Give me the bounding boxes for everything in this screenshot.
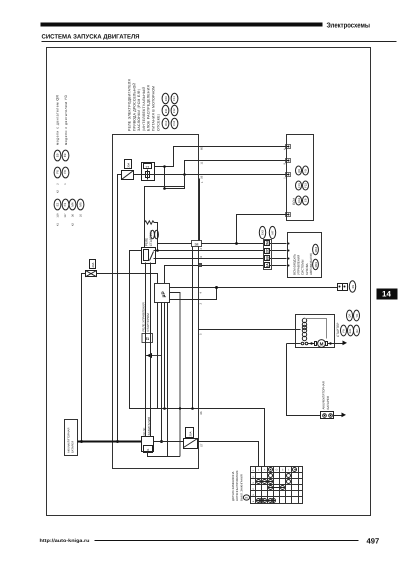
svg-text:40А: 40А: [91, 262, 95, 267]
svg-text:Е2: Е2: [56, 202, 60, 206]
svg-text:М18: М18: [314, 246, 318, 252]
svg-text:СТАРТЕРА: СТАРТЕРА: [149, 229, 153, 246]
svg-text:Е16: Е16: [298, 197, 301, 202]
svg-text:ST: ST: [201, 443, 204, 447]
svg-text:ВЫКЛ. ЗАЖИГАНИЯ: ВЫКЛ. ЗАЖИГАНИЯ: [239, 474, 243, 501]
svg-text:М4: М4: [71, 202, 75, 206]
svg-text:Е9: Е9: [351, 285, 355, 289]
svg-text:F15: F15: [298, 183, 301, 188]
svg-text:ПИТАНИЯ В МОТОРНОМ: ПИТАНИЯ В МОТОРНОМ: [152, 86, 156, 131]
svg-text:117: 117: [64, 213, 67, 218]
svg-text:21: 21: [146, 448, 150, 452]
svg-text:Е43: Е43: [261, 230, 265, 235]
svg-text:Е11: Е11: [164, 108, 168, 113]
svg-text:M: M: [320, 342, 324, 347]
svg-text:ПРИВОДА ДРОССЕЛЬНОЙ: ПРИВОДА ДРОССЕЛЬНОЙ: [131, 82, 136, 131]
svg-text:СТАРТЕР: СТАРТЕР: [336, 323, 340, 337]
svg-text:30А: 30А: [127, 163, 131, 168]
svg-text:СИСТЕМА ЗАПУСКА ДВИГАТЕЛЯ: СИСТЕМА ЗАПУСКА ДВИГАТЕЛЯ: [42, 34, 141, 41]
svg-text:М7: М7: [270, 230, 274, 234]
svg-text:3А: 3А: [266, 263, 270, 268]
svg-text:Электросхемы: Электросхемы: [327, 21, 371, 30]
svg-text:БАТАРЕЯ: БАТАРЕЯ: [326, 396, 330, 410]
svg-text:Е12: Е12: [164, 120, 168, 125]
svg-text:F9: F9: [343, 329, 346, 333]
svg-text:YD: YD: [305, 169, 308, 173]
svg-text:2С: 2С: [266, 248, 270, 253]
svg-text:М6: М6: [79, 202, 83, 206]
svg-text:2М: 2М: [266, 241, 270, 246]
svg-text:модели с двигателем YD: модели с двигателем YD: [64, 94, 68, 145]
svg-text:F13: F13: [172, 120, 176, 125]
svg-text:F8: F8: [56, 170, 60, 174]
svg-text:QR: QR: [298, 169, 301, 173]
svg-text:60: 60: [201, 147, 204, 150]
svg-text:F8: F8: [63, 170, 67, 174]
svg-text:F3: F3: [63, 203, 67, 207]
svg-text:YD: YD: [356, 314, 359, 318]
svg-text:56: 56: [201, 175, 204, 178]
svg-text:F11: F11: [172, 96, 176, 101]
svg-text:ECM: ECM: [292, 198, 296, 205]
svg-text:М19: М19: [314, 262, 318, 268]
svg-text:8В: 8В: [266, 256, 270, 261]
svg-text:Е10: Е10: [164, 96, 168, 101]
svg-text:Е9: Е9: [305, 198, 308, 202]
svg-text:58: 58: [195, 242, 199, 246]
svg-text:http://auto-kniga.ru: http://auto-kniga.ru: [40, 538, 90, 543]
svg-text:21: 21: [146, 166, 150, 170]
svg-text:БАТАРЕЯ: БАТАРЕЯ: [72, 441, 75, 453]
svg-text:В2: В2: [356, 329, 359, 333]
svg-text:РЕЛЕ УПРАВЛЕНИЯ: РЕЛЕ УПРАВЛЕНИЯ: [142, 302, 146, 331]
svg-text:Е9: Е9: [56, 153, 60, 157]
svg-text:30А: 30А: [189, 431, 193, 436]
svg-text:86: 86: [200, 411, 203, 414]
svg-text:СТАРТЕРОМ: СТАРТЕРОМ: [146, 313, 150, 332]
svg-text:F23: F23: [305, 183, 308, 188]
svg-text:ОТСЕКЕ): ОТСЕКЕ): [156, 114, 160, 131]
svg-text:ЗАСЛОНКИ (РСМ Е/R): ЗАСЛОНКИ (РСМ Е/R): [137, 89, 141, 131]
svg-text:µР: µР: [161, 291, 167, 298]
svg-text:F12: F12: [172, 108, 176, 113]
svg-text:РЕЛЕ ЭЛЕКТРОДВИГАТЕЛЯ: РЕЛЕ ЭЛЕКТРОДВИГАТЕЛЯ: [128, 78, 132, 131]
svg-text:Е41: Е41: [349, 328, 352, 333]
svg-text:модели с двигателем QR: модели с двигателем QR: [55, 94, 59, 145]
svg-text:QR: QR: [349, 314, 352, 318]
svg-text:О: О: [276, 469, 278, 472]
svg-text:119: 119: [57, 213, 60, 218]
svg-text:РЕЛЕ: РЕЛЕ: [145, 238, 149, 246]
svg-text:14: 14: [382, 290, 391, 299]
svg-text:БЛОК РАСПРЕДЕЛЕНИЯ: БЛОК РАСПРЕДЕЛЕНИЯ: [147, 84, 151, 131]
svg-text:Е9: Е9: [63, 153, 67, 157]
svg-text:(ИНТЕЛЛЕКТУАЛЬНЫЙ: (ИНТЕЛЛЕКТУАЛЬНЫЙ: [141, 86, 146, 131]
svg-text:497: 497: [367, 537, 380, 546]
svg-text:АККУМУЛЯТОРНАЯ: АККУМУЛЯТОРНАЯ: [68, 428, 71, 453]
